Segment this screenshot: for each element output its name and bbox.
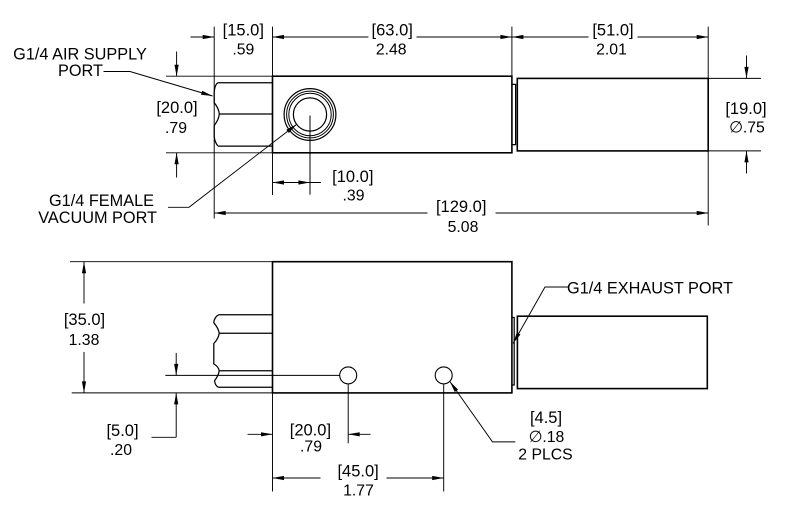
extension line muffler right	[707, 27, 709, 79]
leader hole callout arrowhead	[450, 381, 458, 392]
dimension 35.0 bottom arrowhead	[82, 381, 86, 393]
dimension 20.0 top arrowhead	[175, 65, 179, 77]
svg-text:[15.0]: [15.0]	[223, 22, 264, 40]
dimension 129.0 line left	[214, 212, 427, 214]
muffler cylinder (top view)	[517, 78, 708, 150]
hole centerline	[165, 374, 339, 376]
svg-text:[45.0]: [45.0]	[337, 462, 378, 480]
dimension 20.0 bottom left arrowhead	[261, 432, 273, 436]
svg-text:G1/4 AIR SUPPLY: G1/4 AIR SUPPLY	[13, 46, 147, 64]
dimension 5.0 lower arrowhead	[174, 393, 178, 405]
svg-text:∅.75: ∅.75	[729, 120, 765, 137]
svg-text:.39: .39	[343, 188, 365, 205]
svg-text:5.08: 5.08	[448, 219, 479, 236]
dimension 20.0 top stub	[176, 52, 178, 77]
dimension 10.0 line	[273, 182, 321, 184]
mounting hole 2	[435, 367, 452, 384]
svg-text:.20: .20	[110, 442, 132, 459]
dimension 10.0 left arrowhead	[273, 180, 285, 184]
leader exhaust port arrowhead	[513, 333, 521, 344]
dimension 19.0 top arrowhead	[744, 67, 748, 79]
extension line body top left	[166, 75, 273, 77]
dimension 45.0 line left	[273, 477, 321, 479]
dimension 15.0 left arrowhead	[203, 35, 215, 39]
dimension 19.0 bottom stub	[746, 151, 748, 174]
exhaust neck between body and muffler (top view)	[512, 84, 515, 144]
dimension 45.0 right arrowhead	[432, 476, 444, 480]
dimension 129.0 right arrowhead	[697, 211, 709, 215]
dimension 19.0 bottom arrowhead	[744, 151, 748, 163]
svg-text:[20.0]: [20.0]	[290, 421, 331, 439]
svg-text:.59: .59	[232, 42, 254, 59]
dimension 15.0 left stub	[191, 36, 215, 38]
vacuum port centerline	[309, 116, 311, 195]
svg-text:2.48: 2.48	[376, 42, 407, 59]
svg-text:G1/4 EXHAUST PORT: G1/4 EXHAUST PORT	[567, 279, 733, 297]
svg-text:[5.0]: [5.0]	[106, 422, 138, 440]
dimension 20.0 bottom right arrowhead	[348, 432, 360, 436]
main body (bottom view)	[273, 262, 512, 393]
extension line body bottom left	[166, 152, 273, 154]
dimension 35.0 line top	[83, 262, 85, 304]
leader air supply	[104, 72, 213, 97]
dimension 20.0 bottom stub	[176, 153, 178, 178]
extension line body left below (bottom view)	[272, 393, 274, 492]
dimension 19.0 top stub	[746, 56, 748, 79]
dimension 63.0 left arrowhead	[273, 35, 285, 39]
extension line hole 1	[347, 385, 349, 444]
svg-text:.79: .79	[300, 439, 322, 456]
mounting hole 1	[340, 367, 357, 384]
dimension 45.0 line right	[387, 477, 444, 479]
dimension 10.0 right arrowhead	[298, 180, 310, 184]
svg-text:∅.18: ∅.18	[529, 429, 565, 446]
extension line body top left (bottom view)	[70, 261, 273, 263]
dimension 45.0 left arrowhead	[273, 476, 285, 480]
dimension 5.0 upper stub	[175, 353, 177, 376]
exhaust neck (bottom view)	[512, 318, 514, 386]
svg-text:2 PLCS: 2 PLCS	[518, 446, 572, 463]
dimension 5.0 lower stub	[175, 393, 177, 437]
dimension 129.0 left arrowhead	[214, 211, 226, 215]
leader air supply arrowhead	[201, 91, 213, 96]
extension line hole 2	[443, 385, 445, 492]
svg-text:[35.0]: [35.0]	[64, 311, 105, 329]
extension line body left below	[272, 153, 274, 195]
svg-text:1.77: 1.77	[343, 482, 374, 499]
hex nut of air supply port (top view)	[214, 83, 272, 146]
dimension 129.0 line right	[496, 212, 709, 214]
extension line body left above	[272, 27, 274, 77]
dimension 51.0 line left	[512, 36, 589, 38]
hex nut of air supply port (bottom view)	[214, 315, 273, 388]
extension line hex left edge	[213, 27, 215, 219]
vacuum port circles	[284, 89, 336, 141]
main body (top view)	[273, 76, 512, 153]
svg-text:[129.0]: [129.0]	[436, 198, 486, 216]
dimension 35.0 line bottom	[83, 352, 85, 393]
extension line body right above	[511, 27, 513, 77]
dimension 5.0 shoulder	[152, 436, 177, 438]
dimension 51.0 left arrowhead	[512, 35, 524, 39]
leader vacuum port	[168, 124, 297, 207]
svg-text:[63.0]: [63.0]	[372, 22, 413, 40]
dimension 20.0 bottom arrowhead	[175, 153, 179, 165]
svg-text:VACUUM PORT: VACUUM PORT	[38, 209, 157, 227]
leader vacuum port arrowhead	[286, 124, 296, 133]
extension line muffler top right	[708, 77, 761, 79]
svg-text:G1/4 FEMALE: G1/4 FEMALE	[49, 192, 154, 210]
svg-text:.79: .79	[165, 120, 187, 137]
svg-text:PORT: PORT	[58, 62, 103, 80]
dimension 35.0 top arrowhead	[82, 262, 86, 274]
svg-text:[51.0]: [51.0]	[592, 22, 633, 40]
muffler cylinder (bottom view)	[517, 316, 707, 388]
extension line muffler right lower	[707, 151, 709, 226]
leader hole callout	[450, 381, 516, 442]
svg-text:[10.0]: [10.0]	[332, 168, 373, 186]
dimension 63.0 right arrowhead	[500, 35, 512, 39]
svg-text:1.38: 1.38	[69, 332, 100, 349]
dimension 63.0 line right	[417, 36, 512, 38]
svg-text:[4.5]: [4.5]	[530, 409, 562, 427]
dimension 20.0 bottom right stub	[348, 433, 370, 435]
dimension 51.0 right arrowhead	[697, 35, 709, 39]
svg-text:[19.0]: [19.0]	[725, 100, 766, 118]
extension line muffler bottom right	[708, 150, 761, 152]
dimension 63.0 line left	[273, 36, 369, 38]
svg-text:2.01: 2.01	[596, 42, 627, 59]
svg-text:[20.0]: [20.0]	[156, 99, 197, 117]
extension line body bottom left (bottom view)	[72, 392, 273, 394]
dimension 20.0 bottom left stub	[248, 433, 273, 435]
dimension 5.0 upper arrowhead	[174, 364, 178, 376]
leader exhaust port	[513, 287, 568, 344]
dimension 51.0 line right	[638, 36, 709, 38]
